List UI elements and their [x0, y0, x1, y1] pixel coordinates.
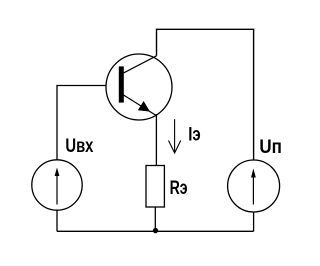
svg-text:Uвх: Uвх	[65, 135, 93, 157]
svg-text:Rэ: Rэ	[170, 177, 188, 199]
svg-text:Iэ: Iэ	[188, 124, 201, 146]
svg-text:Uп: Uп	[259, 136, 282, 158]
